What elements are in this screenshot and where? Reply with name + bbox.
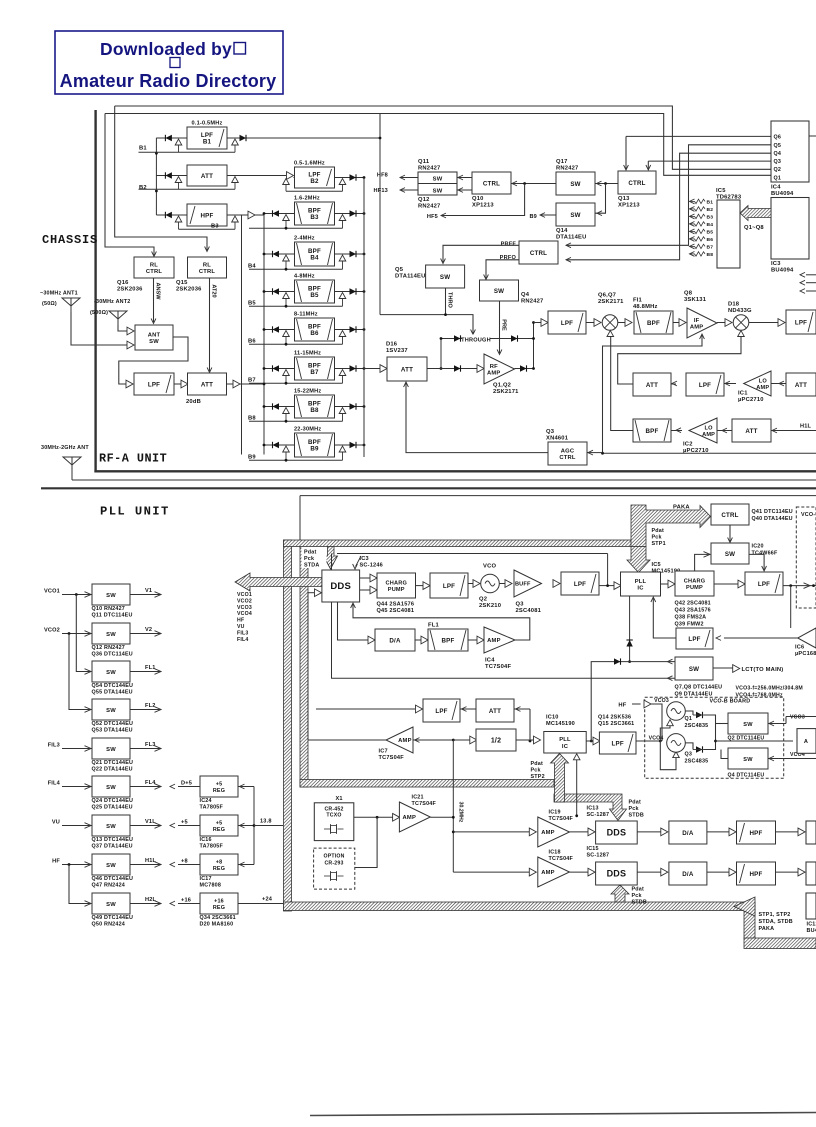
svg-text:STP1, STP2: STP1, STP2 <box>759 912 791 918</box>
svg-text:REG: REG <box>213 788 225 794</box>
svg-text:V2: V2 <box>145 627 152 633</box>
svg-text:Q36 DTC114EU: Q36 DTC114EU <box>92 652 133 658</box>
svg-text:D18: D18 <box>728 302 740 308</box>
svg-text:TA7805F: TA7805F <box>200 844 224 850</box>
svg-text:3SK131: 3SK131 <box>684 297 707 303</box>
svg-text:2SK210: 2SK210 <box>479 603 501 609</box>
svg-text:+5: +5 <box>181 820 188 826</box>
svg-text:VCO3-f=256.0MHz/304.8M: VCO3-f=256.0MHz/304.8M <box>736 686 803 692</box>
svg-text:SW: SW <box>149 339 159 345</box>
svg-text:VCO3: VCO3 <box>654 698 669 704</box>
svg-text:Q2: Q2 <box>479 597 487 603</box>
svg-text:B7: B7 <box>248 378 256 384</box>
svg-text:FL1: FL1 <box>145 665 156 671</box>
svg-text:Q21 DTC144EU: Q21 DTC144EU <box>92 760 134 766</box>
svg-text:AGC: AGC <box>561 448 575 454</box>
svg-text:FI1: FI1 <box>633 298 643 304</box>
svg-text:CHARG: CHARG <box>385 580 407 586</box>
svg-text:STDB: STDB <box>632 900 647 906</box>
svg-text:REG: REG <box>213 905 225 911</box>
svg-text:H2L: H2L <box>145 897 157 903</box>
svg-text:HF5: HF5 <box>427 214 438 220</box>
svg-text:SW: SW <box>106 670 116 676</box>
svg-text:Q38 FMS2A: Q38 FMS2A <box>675 615 707 621</box>
svg-text:Q34 2SC3661: Q34 2SC3661 <box>200 915 236 921</box>
svg-text:AMP: AMP <box>702 432 715 438</box>
svg-text:B8: B8 <box>310 407 319 414</box>
svg-text:µPC168: µPC168 <box>795 651 816 657</box>
svg-text:B4: B4 <box>707 222 714 228</box>
svg-text:PUMP: PUMP <box>686 585 703 591</box>
svg-text:LPF: LPF <box>443 583 455 590</box>
svg-text:B2: B2 <box>707 207 714 213</box>
svg-text:LPF: LPF <box>612 740 624 747</box>
svg-text:TA7805F: TA7805F <box>200 805 224 811</box>
svg-text:IC19: IC19 <box>549 810 561 816</box>
svg-text:PUMP: PUMP <box>388 587 405 593</box>
svg-text:B8: B8 <box>707 252 714 258</box>
svg-text:SW: SW <box>743 757 753 763</box>
svg-text:D20 MA8160: D20 MA8160 <box>200 922 234 928</box>
svg-text:SC-1246: SC-1246 <box>360 563 383 569</box>
svg-text:CTRL: CTRL <box>530 250 547 257</box>
svg-text:RN2427: RN2427 <box>521 299 543 305</box>
svg-text:PAKA: PAKA <box>759 926 775 932</box>
svg-text:Q4: Q4 <box>774 151 782 157</box>
svg-text:VCO2: VCO2 <box>237 598 252 604</box>
svg-text:CHASSIS: CHASSIS <box>42 233 98 247</box>
svg-text:V1L: V1L <box>145 819 156 825</box>
svg-text:HF8: HF8 <box>377 173 388 179</box>
svg-text:AMP: AMP <box>403 815 416 821</box>
svg-text:BU40: BU40 <box>807 928 816 934</box>
svg-text:IC13: IC13 <box>587 806 599 812</box>
svg-text:IC7: IC7 <box>379 749 388 755</box>
svg-text:STDB: STDB <box>629 813 644 819</box>
svg-text:IC21: IC21 <box>412 795 424 801</box>
svg-text:REG: REG <box>213 866 225 872</box>
svg-text:IC20: IC20 <box>752 544 764 550</box>
svg-text:ANT: ANT <box>148 332 161 338</box>
svg-text:Q47 RN2424: Q47 RN2424 <box>92 883 125 889</box>
svg-text:TC7S04F: TC7S04F <box>485 664 511 670</box>
svg-text:13.8: 13.8 <box>260 819 272 825</box>
svg-text:Q12: Q12 <box>418 197 430 203</box>
svg-text:Q14 2SK536: Q14 2SK536 <box>598 715 631 721</box>
svg-text:B9: B9 <box>310 446 319 453</box>
svg-text:Pck: Pck <box>629 806 639 812</box>
svg-text:B5: B5 <box>248 301 256 307</box>
svg-text:STDA: STDA <box>304 563 319 569</box>
svg-text:IC4: IC4 <box>771 185 781 191</box>
svg-text:IC3: IC3 <box>771 261 781 267</box>
svg-text:Q42 2SC4081: Q42 2SC4081 <box>675 601 711 607</box>
svg-text:B2: B2 <box>139 185 147 191</box>
svg-text:LPF: LPF <box>699 382 711 389</box>
svg-text:LPF: LPF <box>795 319 807 326</box>
svg-text:ANSW: ANSW <box>155 282 161 300</box>
svg-text:A: A <box>804 739 808 745</box>
svg-text:LPF: LPF <box>148 381 160 388</box>
svg-text:HF13: HF13 <box>374 188 388 194</box>
svg-text:Q10 RN2427: Q10 RN2427 <box>92 606 125 612</box>
svg-text:BPF: BPF <box>442 637 455 644</box>
svg-text:BPF: BPF <box>647 320 660 327</box>
svg-text:XP1213: XP1213 <box>618 203 640 209</box>
svg-text:D+5: D+5 <box>181 781 192 787</box>
svg-text:B8: B8 <box>248 416 256 422</box>
svg-text:LCT(TO MAIN): LCT(TO MAIN) <box>742 667 784 673</box>
svg-text:30.2MHz: 30.2MHz <box>458 802 464 823</box>
svg-text:Q9 DTA144EU: Q9 DTA144EU <box>675 692 713 698</box>
svg-text:IC2: IC2 <box>683 442 693 448</box>
svg-text:+8: +8 <box>181 859 188 865</box>
svg-text:BU4094: BU4094 <box>771 191 794 197</box>
svg-text:8-11MHz: 8-11MHz <box>294 312 318 318</box>
svg-text:48.8MHz: 48.8MHz <box>633 304 658 310</box>
svg-text:B2: B2 <box>310 178 319 185</box>
svg-text:LPF: LPF <box>574 581 586 588</box>
svg-text:VCO4: VCO4 <box>237 611 252 617</box>
svg-text:SW: SW <box>689 666 699 673</box>
svg-text:Q2 DTC114EU: Q2 DTC114EU <box>728 736 765 742</box>
svg-text:D/A: D/A <box>389 637 401 644</box>
svg-text:SW: SW <box>725 551 735 558</box>
svg-text:B7: B7 <box>707 245 714 251</box>
svg-text:1.6-2MHz: 1.6-2MHz <box>294 196 320 202</box>
svg-text:+5: +5 <box>216 781 223 787</box>
svg-text:Q2: Q2 <box>774 167 782 173</box>
svg-text:CTRL: CTRL <box>483 180 500 187</box>
svg-text:ATT: ATT <box>401 366 413 373</box>
svg-text:SW: SW <box>106 593 116 599</box>
svg-text:B9: B9 <box>248 455 256 461</box>
svg-text:IC5: IC5 <box>716 188 726 194</box>
svg-text:Q41 DTC114EU: Q41 DTC114EU <box>752 509 793 515</box>
svg-text:VCO: VCO <box>483 564 496 570</box>
svg-text:VU: VU <box>237 624 245 630</box>
svg-text:DDS: DDS <box>330 581 351 592</box>
svg-text:Q1,Q2: Q1,Q2 <box>493 383 511 389</box>
svg-text:+8: +8 <box>216 859 223 865</box>
svg-text:Q43 2SA1576: Q43 2SA1576 <box>675 608 711 614</box>
svg-text:RL: RL <box>150 262 158 268</box>
svg-text:SW: SW <box>106 785 116 791</box>
svg-text:Pdat: Pdat <box>629 800 641 806</box>
svg-text:PRFF: PRFF <box>501 242 517 248</box>
svg-text:1/2: 1/2 <box>491 737 501 744</box>
svg-text:B1: B1 <box>707 200 714 206</box>
svg-text:Q25 DTA144EU: Q25 DTA144EU <box>92 805 133 811</box>
svg-text:B3: B3 <box>707 215 714 221</box>
svg-text:SW: SW <box>106 902 116 908</box>
svg-text:RL: RL <box>203 262 211 268</box>
svg-text:Q49 DTC144EU: Q49 DTC144EU <box>92 915 134 921</box>
svg-text:2SK2036: 2SK2036 <box>176 287 202 293</box>
svg-text:XN4601: XN4601 <box>546 436 569 442</box>
svg-text:Pdat: Pdat <box>304 550 316 556</box>
svg-text:TCXO: TCXO <box>326 813 341 819</box>
svg-text:CTRL: CTRL <box>146 269 163 275</box>
svg-text:IF: IF <box>694 318 700 324</box>
svg-text:1SV237: 1SV237 <box>386 348 408 354</box>
svg-text:SW: SW <box>106 747 116 753</box>
svg-text:RN2427: RN2427 <box>556 166 578 172</box>
svg-text:BU4094: BU4094 <box>771 268 794 274</box>
svg-text:LO: LO <box>705 426 714 432</box>
svg-text:VCO3: VCO3 <box>790 715 805 721</box>
svg-text:DTA114EU: DTA114EU <box>395 274 426 280</box>
svg-text:+16: +16 <box>181 898 191 904</box>
svg-text:Q12 RN2427: Q12 RN2427 <box>92 645 125 651</box>
svg-text:B1: B1 <box>139 146 147 152</box>
svg-text:FIL3: FIL3 <box>48 743 60 749</box>
svg-text:Amateur Radio Directory: Amateur Radio Directory <box>60 71 277 91</box>
svg-text:B3: B3 <box>310 214 319 221</box>
svg-text:2SK2036: 2SK2036 <box>117 287 143 293</box>
svg-text:ATT: ATT <box>745 428 757 435</box>
svg-text:15-22MHz: 15-22MHz <box>294 389 321 395</box>
svg-text:ATT: ATT <box>489 708 501 715</box>
svg-text:LPF: LPF <box>435 708 447 715</box>
svg-text:H1L: H1L <box>145 858 157 864</box>
svg-text:Q1: Q1 <box>774 175 782 181</box>
svg-text:TC7S04F: TC7S04F <box>412 801 437 807</box>
svg-text:B9: B9 <box>529 214 537 220</box>
svg-text:SW: SW <box>433 177 443 183</box>
svg-text:Q11: Q11 <box>418 159 430 165</box>
svg-text:MC7808: MC7808 <box>200 883 222 889</box>
svg-text:2SC4835: 2SC4835 <box>685 723 709 729</box>
svg-text:RN2427: RN2427 <box>418 166 440 172</box>
svg-text:Q1~Q8: Q1~Q8 <box>744 225 764 231</box>
svg-text:B6: B6 <box>707 237 714 243</box>
svg-text:IC: IC <box>562 744 569 750</box>
svg-text:PAKA: PAKA <box>673 505 690 511</box>
svg-text:Pck: Pck <box>652 535 662 541</box>
svg-text:B4: B4 <box>248 264 256 270</box>
svg-text:CTRL: CTRL <box>199 269 216 275</box>
svg-text:Q45 2SC4081: Q45 2SC4081 <box>377 608 415 614</box>
svg-text:Q3: Q3 <box>774 159 782 165</box>
svg-text:CHARG: CHARG <box>684 578 706 584</box>
svg-text:Q40 DTA144EU: Q40 DTA144EU <box>752 516 793 522</box>
svg-text:Q24 DTC144EU: Q24 DTC144EU <box>92 798 134 804</box>
svg-text:SW: SW <box>106 824 116 830</box>
svg-text:FIL4: FIL4 <box>48 781 61 787</box>
svg-text:RF: RF <box>490 364 498 370</box>
svg-text:Q7,Q8 DTC144EU: Q7,Q8 DTC144EU <box>675 685 723 691</box>
svg-text:Pck: Pck <box>632 893 642 899</box>
svg-text:IC4: IC4 <box>485 658 495 664</box>
svg-text:VCO-: VCO- <box>801 512 815 518</box>
svg-text:RN2427: RN2427 <box>418 204 440 210</box>
svg-text:FL1: FL1 <box>428 623 439 629</box>
svg-text:+16: +16 <box>214 898 224 904</box>
svg-text:Q3: Q3 <box>685 752 693 758</box>
svg-text:FIL3: FIL3 <box>237 630 248 636</box>
svg-text:Q5: Q5 <box>395 267 404 273</box>
svg-text:SW: SW <box>106 863 116 869</box>
svg-text:B4: B4 <box>310 255 319 262</box>
svg-text:ATT: ATT <box>201 381 213 388</box>
svg-text:IC10: IC10 <box>546 715 559 721</box>
svg-text:DDS: DDS <box>607 827 627 837</box>
svg-text:IC16: IC16 <box>200 837 212 843</box>
svg-text:Q13: Q13 <box>618 196 630 202</box>
svg-text:(50Ω): (50Ω) <box>42 301 57 307</box>
svg-text:Q17: Q17 <box>556 159 568 165</box>
svg-text:IC1: IC1 <box>738 391 748 397</box>
svg-text:SW: SW <box>433 189 443 195</box>
svg-text:CR-293: CR-293 <box>324 861 343 867</box>
svg-text:PRE: PRE <box>500 319 506 331</box>
svg-text:LPF: LPF <box>561 320 573 327</box>
svg-text:22-30MHz: 22-30MHz <box>294 427 321 433</box>
svg-text:IC15: IC15 <box>587 846 599 852</box>
svg-text:IC5: IC5 <box>652 562 661 568</box>
svg-text:+24: +24 <box>262 897 273 903</box>
svg-text:HF: HF <box>237 618 244 624</box>
svg-text:11-15MHz: 11-15MHz <box>294 351 321 357</box>
svg-text:IC17: IC17 <box>200 876 212 882</box>
svg-text:Q10: Q10 <box>472 196 484 202</box>
svg-text:VCO4: VCO4 <box>649 736 664 742</box>
svg-text:~30MHz ANT1: ~30MHz ANT1 <box>40 291 78 297</box>
svg-text:BUFF: BUFF <box>515 582 531 588</box>
svg-text:TC7S04F: TC7S04F <box>549 856 574 862</box>
svg-text:Q44 2SA1576: Q44 2SA1576 <box>377 602 415 608</box>
svg-text:Q1: Q1 <box>685 716 693 722</box>
svg-text:Q3: Q3 <box>516 602 525 608</box>
svg-text:TC7S04F: TC7S04F <box>549 816 574 822</box>
svg-text:B6: B6 <box>310 330 319 337</box>
svg-text:Q37 DTA144EU: Q37 DTA144EU <box>92 844 133 850</box>
svg-text:VCO-B BOARD: VCO-B BOARD <box>710 699 751 705</box>
svg-text:Q3: Q3 <box>546 429 555 435</box>
svg-text:AMP: AMP <box>756 385 769 391</box>
svg-text:B7: B7 <box>310 369 319 376</box>
svg-text:LPF: LPF <box>688 636 700 643</box>
svg-text:Q16: Q16 <box>117 280 129 286</box>
svg-text:RF-A UNIT: RF-A UNIT <box>99 452 167 466</box>
svg-text:20dB: 20dB <box>186 399 201 405</box>
svg-text:VCO1: VCO1 <box>44 589 60 595</box>
svg-text:ND433G: ND433G <box>728 308 752 314</box>
svg-text:µPC2710: µPC2710 <box>738 397 764 403</box>
svg-text:FL3: FL3 <box>145 742 156 748</box>
svg-text:HPF: HPF <box>750 830 763 837</box>
svg-text:CTRL: CTRL <box>721 512 738 519</box>
svg-text:Q13 DTC144EU: Q13 DTC144EU <box>92 837 134 843</box>
svg-text:FIL4: FIL4 <box>237 637 248 643</box>
svg-text:TC7S04F: TC7S04F <box>379 755 405 761</box>
svg-text:Pck: Pck <box>304 556 314 562</box>
svg-text:SW: SW <box>494 288 504 295</box>
svg-text:HPF: HPF <box>750 871 763 878</box>
svg-text:2SC4835: 2SC4835 <box>685 759 709 765</box>
svg-text:AMP: AMP <box>690 324 703 330</box>
svg-text:AMP: AMP <box>487 638 500 644</box>
svg-text:CTRL: CTRL <box>559 455 576 461</box>
svg-text:IC: IC <box>637 586 644 592</box>
svg-text:2SC4081: 2SC4081 <box>516 608 542 614</box>
svg-text:Q5: Q5 <box>774 143 782 149</box>
svg-text:AMP: AMP <box>487 370 500 376</box>
svg-text:BPF: BPF <box>646 428 659 435</box>
svg-text:AMP: AMP <box>398 738 411 744</box>
svg-text:TD62783: TD62783 <box>716 195 742 201</box>
svg-text:2SK2171: 2SK2171 <box>598 299 624 305</box>
svg-text:LPF: LPF <box>758 581 770 588</box>
svg-text:V1: V1 <box>145 588 152 594</box>
svg-text:THROUGH: THROUGH <box>461 338 491 344</box>
svg-text:PLL: PLL <box>559 737 571 743</box>
svg-text:REG: REG <box>213 827 225 833</box>
svg-text:B6: B6 <box>248 339 256 345</box>
svg-text:4-8MHz: 4-8MHz <box>294 274 315 280</box>
svg-text:LO: LO <box>759 379 768 385</box>
svg-text:Pdat: Pdat <box>531 761 543 767</box>
svg-text:CTRL: CTRL <box>628 180 645 187</box>
svg-text:Q50 RN2424: Q50 RN2424 <box>92 922 125 928</box>
svg-text:(500Ω): (500Ω) <box>90 310 108 316</box>
svg-text:Q55 DTA144EU: Q55 DTA144EU <box>92 690 133 696</box>
svg-text:Q14: Q14 <box>556 228 568 234</box>
svg-text:STDA, STDB: STDA, STDB <box>759 919 793 925</box>
svg-text:B3: B3 <box>211 224 219 230</box>
svg-text:2SK2171: 2SK2171 <box>493 389 519 395</box>
svg-text:Q4 DTC114EU: Q4 DTC114EU <box>728 773 765 779</box>
svg-text:SW: SW <box>570 181 580 188</box>
svg-text:HF: HF <box>618 703 626 709</box>
svg-text:MC145190: MC145190 <box>546 721 575 727</box>
svg-text:FL2: FL2 <box>145 703 156 709</box>
svg-text:PLL: PLL <box>635 579 647 585</box>
svg-text:FL4: FL4 <box>145 780 156 786</box>
svg-text:SW: SW <box>106 708 116 714</box>
svg-text:D16: D16 <box>386 342 398 348</box>
svg-text:SW: SW <box>570 212 580 219</box>
svg-text:Q8: Q8 <box>684 291 693 297</box>
svg-text:D/A: D/A <box>682 830 694 837</box>
svg-text:AMP: AMP <box>541 830 554 836</box>
svg-text:Q53 DTA144EU: Q53 DTA144EU <box>92 728 133 734</box>
svg-text:Q15 2SC3661: Q15 2SC3661 <box>598 721 634 727</box>
svg-text:Downloaded by: Downloaded by <box>100 39 232 59</box>
svg-text:IC12: IC12 <box>807 922 816 928</box>
svg-text:Q11 DTC114EU: Q11 DTC114EU <box>92 613 133 619</box>
svg-text:Pdat: Pdat <box>632 887 644 893</box>
svg-text:TC4W66F: TC4W66F <box>752 551 778 557</box>
svg-text:IC18: IC18 <box>549 850 561 856</box>
svg-text:B5: B5 <box>310 292 319 299</box>
svg-text:Q4: Q4 <box>521 292 530 298</box>
svg-text:ATT: ATT <box>646 382 658 389</box>
svg-text:-30MHz ANT2: -30MHz ANT2 <box>94 299 130 305</box>
svg-text:0.5-1.6MHz: 0.5-1.6MHz <box>294 161 325 167</box>
svg-text:DDS: DDS <box>607 868 627 878</box>
svg-text:Q54 DTC144EU: Q54 DTC144EU <box>92 683 134 689</box>
svg-text:ATT: ATT <box>201 173 213 180</box>
svg-text:SW: SW <box>440 274 450 281</box>
svg-text:Pck: Pck <box>531 768 541 774</box>
svg-text:STP1: STP1 <box>652 541 666 547</box>
svg-text:AT20: AT20 <box>211 284 217 297</box>
svg-text:DTA114EU: DTA114EU <box>556 235 587 241</box>
svg-text:B5: B5 <box>707 230 714 236</box>
svg-text:PLL UNIT: PLL UNIT <box>100 505 170 519</box>
